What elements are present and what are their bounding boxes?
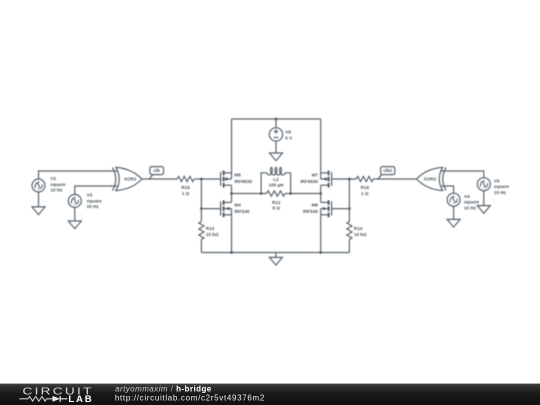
node mid right — [319, 192, 322, 195]
node clk2 gate junction — [348, 178, 351, 181]
svg-text:10 Hz: 10 Hz — [494, 190, 507, 195]
svg-text:L2: L2 — [273, 177, 279, 182]
wire R16 to XOR2 — [373, 178, 416, 180]
node M4 gate junction — [200, 207, 203, 210]
R13 label — [206, 226, 219, 237]
svg-text:M6: M6 — [312, 203, 319, 208]
wire V3 to XOR1 input B — [75, 186, 117, 195]
V5 label — [494, 178, 510, 195]
wire V6 to rail — [275, 119, 277, 128]
flag clk2 — [381, 167, 395, 175]
wire load to mid right — [291, 193, 321, 195]
node rail left — [230, 251, 233, 254]
flag clk2 stem — [378, 175, 382, 180]
wire gate node to R13 — [200, 209, 202, 222]
svg-text:clk: clk — [154, 168, 161, 173]
flag clk stem — [149, 175, 153, 180]
voltage source V5 — [477, 178, 490, 191]
svg-text:R15: R15 — [181, 185, 190, 190]
svg-text:1 Ω: 1 Ω — [361, 191, 369, 196]
wire M7 drain to mid node — [320, 185, 322, 193]
xor gate XOR2 — [417, 167, 447, 190]
svg-text:square: square — [464, 200, 480, 205]
node V6 top — [275, 118, 278, 121]
svg-text:IRF530: IRF530 — [234, 209, 250, 214]
R15 label — [181, 185, 190, 196]
logo resistor diode line — [19, 396, 67, 402]
wire load right riser — [285, 173, 291, 194]
svg-text:1 Ω: 1 Ω — [182, 191, 190, 196]
wire XOR1 output to R15 — [142, 178, 177, 180]
svg-text:R16: R16 — [361, 185, 370, 190]
svg-text:IRF9530: IRF9530 — [300, 179, 318, 184]
svg-text:M7: M7 — [312, 173, 319, 178]
transistor M6 — [321, 200, 332, 217]
wire M6 drain to mid node — [320, 194, 322, 203]
wire gate node to R14 — [348, 209, 350, 222]
resistor R12 — [267, 191, 285, 196]
svg-text:V2: V2 — [50, 176, 56, 181]
svg-text:artyommaxim / h-bridge: artyommaxim / h-bridge — [115, 384, 212, 393]
ground under V3 — [68, 221, 81, 229]
svg-text:square: square — [494, 184, 510, 189]
svg-text:square: square — [50, 182, 66, 187]
svg-text:V6: V6 — [285, 130, 291, 135]
L2 label — [269, 177, 285, 188]
wire mid left to load — [232, 193, 262, 195]
wire left rail top — [231, 119, 233, 173]
wire M6 source to ground rail — [320, 215, 322, 253]
wire load left riser — [261, 173, 267, 194]
svg-text:10 Hz: 10 Hz — [50, 188, 63, 193]
node mid left — [230, 192, 233, 195]
wire V2 to XOR1 input A — [39, 171, 118, 179]
R14 label — [354, 226, 367, 237]
ground rail symbol — [269, 257, 282, 265]
voltage source V2 — [32, 179, 45, 192]
svg-text:M4: M4 — [234, 203, 241, 208]
V2 label — [50, 176, 66, 193]
transistor M5 — [221, 171, 232, 188]
wire gate node to M4 gate — [201, 208, 220, 210]
voltage source V3 — [68, 194, 81, 207]
node M6 gate junction — [348, 207, 351, 210]
wire XOR2 input B to V4 — [442, 186, 454, 193]
M4 label — [234, 203, 250, 214]
svg-text:R14: R14 — [354, 226, 363, 231]
wire right rail top — [320, 119, 322, 173]
svg-text:10 Hz: 10 Hz — [464, 206, 477, 211]
wire M4 source to ground rail — [231, 215, 233, 253]
voltage source V6 — [269, 128, 282, 141]
resistor R14 — [347, 222, 352, 240]
wire gate node vertical — [200, 179, 202, 209]
svg-text:clk2: clk2 — [383, 168, 392, 173]
svg-text:R12: R12 — [272, 200, 281, 205]
ground under V6 — [270, 153, 283, 161]
svg-text:V5: V5 — [494, 178, 500, 183]
V4 label — [464, 194, 480, 211]
svg-text:http://circuitlab.com/c2r5vt49: http://circuitlab.com/c2r5vt49376m2 — [115, 394, 265, 403]
wire M7 gate to node — [332, 178, 357, 180]
R16 label — [361, 185, 370, 196]
ground under V5 — [477, 206, 490, 214]
resistor R13 — [199, 222, 204, 240]
wire V2 to ground — [38, 192, 40, 207]
wire gate node vertical right — [348, 179, 350, 209]
wire R14 to ground rail — [348, 240, 350, 253]
wire M5 drain to mid node — [231, 185, 233, 193]
M6 label — [303, 203, 319, 214]
R12 label — [272, 200, 281, 211]
ground under V4 — [447, 219, 460, 227]
wire V6 to ground — [275, 141, 277, 153]
svg-text:square: square — [87, 198, 103, 203]
flag clk — [150, 167, 164, 175]
V6 label — [285, 130, 293, 141]
svg-text:M5: M5 — [234, 173, 241, 178]
svg-text:8 Ω: 8 Ω — [272, 206, 280, 211]
transistor M7 — [321, 171, 332, 188]
wire top rail — [232, 118, 321, 120]
wire ground rail — [201, 252, 349, 254]
V3 label — [87, 193, 103, 210]
wire gate node to M6 gate — [332, 208, 350, 210]
ground under V2 — [32, 207, 45, 215]
svg-text:10 kΩ: 10 kΩ — [206, 232, 219, 237]
wire R13 to ground rail — [200, 240, 202, 253]
svg-text:5 V: 5 V — [285, 135, 293, 140]
svg-text:XOR1: XOR1 — [124, 177, 137, 182]
svg-text:10 kΩ: 10 kΩ — [354, 232, 367, 237]
wire M4 drain to mid node — [231, 194, 233, 203]
wire load left lead — [261, 193, 267, 195]
node load left — [260, 192, 263, 195]
resistor R15 — [177, 176, 194, 181]
wire R15 to gate node — [194, 178, 220, 180]
svg-text:IRF9530: IRF9530 — [234, 179, 252, 184]
svg-text:R13: R13 — [206, 226, 215, 231]
svg-text:10 Hz: 10 Hz — [87, 204, 100, 209]
transistor M4 — [221, 200, 232, 217]
wire load right lead — [285, 193, 291, 195]
svg-text:LAB: LAB — [68, 394, 93, 405]
svg-text:V4: V4 — [464, 194, 470, 199]
xor gate XOR1 — [112, 167, 142, 190]
node load right — [289, 192, 292, 195]
node clk gate junction — [200, 178, 203, 181]
svg-text:XOR2: XOR2 — [424, 177, 437, 182]
voltage source V4 — [447, 193, 460, 206]
svg-text:100 µH: 100 µH — [269, 183, 285, 188]
svg-text:V3: V3 — [87, 193, 93, 198]
wire V4 to ground — [453, 206, 455, 219]
wire rail to ground — [275, 253, 277, 258]
M7 label — [300, 173, 318, 184]
wire V5 to ground — [483, 191, 485, 206]
wire XOR2 input A to V5 — [442, 171, 484, 178]
wire V3 to ground — [74, 207, 76, 221]
node rail right — [319, 251, 322, 254]
svg-text:IRF530: IRF530 — [303, 209, 319, 214]
M5 label — [234, 173, 252, 184]
inductor L2 — [267, 167, 285, 175]
resistor R16 — [356, 176, 373, 181]
